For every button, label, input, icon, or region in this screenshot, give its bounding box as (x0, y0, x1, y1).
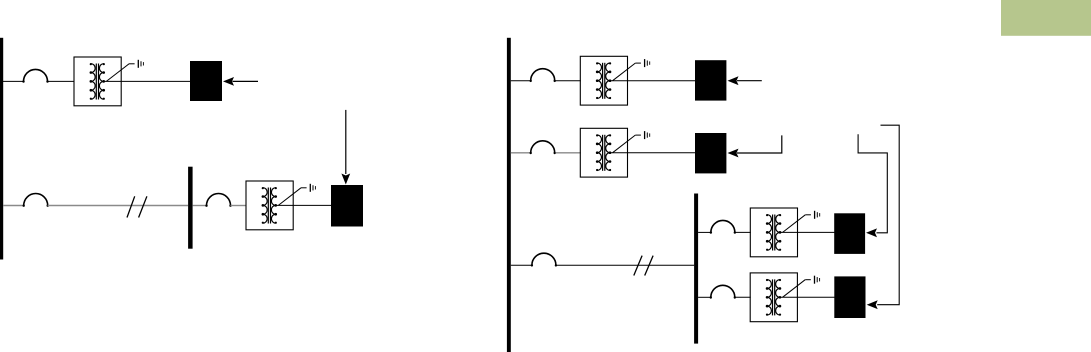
wire transformer TR1 to relay BR1 (627, 80, 696, 82)
line-break slashes left feeder (127, 196, 147, 217)
arrow into relay BR2 with riser stub (728, 135, 782, 157)
wire breaker R4 to transformer TR4 (735, 296, 751, 298)
gray wire breaker R2 to transformer TR2 (556, 152, 581, 154)
bus 1 (left diagram main bus) (0, 38, 3, 260)
wire breaker R3 to transformer TR3 (735, 231, 751, 233)
gray feeder wire bus1 to breaker L2a (3, 205, 24, 207)
circuit breaker L2 (205, 194, 231, 207)
relay BR1 (black box) (695, 60, 726, 100)
transformer TR2 (LTC) (580, 128, 649, 177)
wire transformer TR4 to relay BR4 (797, 296, 835, 298)
relay B1 (black box) (190, 61, 222, 101)
gray wire bus2 to breaker L2 (193, 205, 207, 207)
wire transformer TR3 to relay BR3 (797, 231, 835, 233)
feeder wire busR to bus2R (511, 264, 532, 266)
circuit breaker RF (531, 253, 557, 266)
arrow into relay BR3 from bracket A (858, 134, 887, 237)
transformer T1 (LTC) (74, 57, 143, 106)
wire transformer TR2 to relay BR2 (627, 152, 696, 154)
bus R (right diagram main bus) (507, 38, 511, 352)
wire breaker L1 to transformer T1 (48, 80, 75, 82)
gray wire busR to breaker R2 (511, 152, 530, 154)
arrow into relay BR4 from bracket B (867, 125, 900, 309)
relay BR3 (black box) (834, 213, 865, 254)
circuit breaker R1 (530, 69, 556, 82)
line-break slashes right feeder (634, 256, 653, 276)
arrow into relay BR1 (728, 76, 762, 85)
gray wire breaker L2 to transformer T2 (231, 205, 247, 207)
wire breaker R1 to transformer TR1 (555, 80, 581, 82)
wire transformer T2 to relay B2 (293, 204, 332, 206)
feeder wire breaker RF to bus2R (556, 264, 694, 266)
wire transformer T1 to relay B1 (121, 80, 191, 82)
relay BR2 (black box) (695, 133, 726, 173)
circuit breaker R3 (710, 220, 736, 233)
transformer TR4 (LTC) (750, 273, 819, 322)
gray feeder wire breaker L2a to bus2 (48, 205, 188, 207)
bus 2R (right diagram secondary bus) (694, 194, 698, 344)
wire bus2R to breaker R3 (698, 231, 711, 233)
green header block (1001, 0, 1091, 36)
arrow into relay B1 (223, 77, 258, 86)
wire bus1 to breaker L1 (3, 80, 24, 82)
wire busR to breaker R1 (511, 80, 531, 82)
transformer TR3 (LTC) (750, 208, 819, 257)
circuit breaker R2 (530, 141, 556, 154)
circuit breaker L1 (22, 69, 48, 82)
arrow into relay B2 (vertical) (341, 110, 350, 185)
bus 2 (left diagram secondary bus) (188, 167, 193, 249)
relay B2 (black box) (331, 185, 363, 227)
transformer T2 (LTC) (246, 181, 315, 230)
transformer TR1 (LTC) (580, 56, 649, 105)
wire bus2R to breaker R4 (698, 296, 711, 298)
circuit breaker R4 (710, 285, 736, 298)
circuit breaker L2a (23, 194, 49, 207)
relay BR4 (black box) (834, 276, 865, 318)
